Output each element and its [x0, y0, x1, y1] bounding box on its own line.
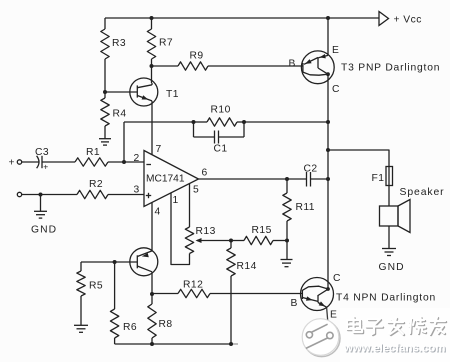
wire ground lead below R11: [286, 241, 288, 260]
svg-text:7: 7: [156, 144, 162, 155]
node R13-wiper/R14/R15 junction: [229, 239, 233, 243]
wire R14 bottom lead: [230, 276, 232, 344]
resistor R7: [147, 29, 173, 59]
wire rail to F1: [328, 150, 389, 167]
svg-text:R3: R3: [112, 38, 126, 49]
svg-text:6: 6: [202, 168, 208, 179]
resistor R6: [110, 309, 137, 338]
wire R14 top lead: [230, 241, 232, 249]
resistor R10: [194, 105, 245, 127]
wire R4 bottom lead: [104, 126, 106, 139]
node bottom/R8 junction: [150, 342, 154, 346]
node rail/C2 junction: [326, 177, 330, 181]
svg-text:C: C: [332, 84, 340, 95]
svg-text:R10: R10: [211, 105, 231, 116]
wire F1 to speaker: [388, 186, 390, 207]
resistor R14: [227, 248, 257, 276]
wire feedback horizontal: [124, 121, 194, 123]
label pin 1: [173, 195, 179, 206]
label pin 2: [134, 153, 140, 164]
wire R15 left lead: [231, 240, 244, 242]
wire R15 right lead: [273, 240, 287, 242]
wire R4 top lead: [104, 92, 106, 98]
wire op-amp pin5 lead: [189, 184, 191, 228]
resistor R12: [178, 280, 210, 298]
node T2-base/R5/R6 junction: [113, 260, 117, 264]
terminal input2 circle: [17, 192, 21, 196]
svg-text:R8: R8: [159, 319, 173, 330]
wire R6 top lead: [114, 262, 116, 309]
svg-text:C1: C1: [214, 144, 228, 155]
capacitor C1: [194, 122, 245, 155]
wire bottom: [115, 343, 231, 345]
node top T3 emitter junction: [326, 16, 330, 20]
capacitor C2: [304, 164, 318, 187]
wire feedback vertical: [123, 122, 125, 162]
svg-text:R13: R13: [196, 226, 216, 237]
node R11/R15/ground junction: [285, 239, 289, 243]
resistor R2: [77, 179, 108, 199]
wire R2 to op-amp pin3: [108, 194, 144, 196]
node feedback/pin2 junction: [122, 160, 126, 164]
label pin 4: [155, 207, 161, 218]
capacitor C3: [35, 147, 49, 172]
wire R5 to base node: [81, 261, 115, 263]
label pin 3: [134, 185, 140, 196]
wire R7 bottom lead: [151, 59, 153, 66]
op-amp pin2 minus symbol: [146, 164, 151, 166]
svg-text:4: 4: [155, 207, 161, 218]
wire GND1 lead: [40, 195, 42, 212]
watermark elecfans: [302, 308, 450, 362]
svg-text:B: B: [289, 59, 296, 70]
wire C2 to rail: [311, 178, 329, 180]
wire R3 top lead: [104, 18, 106, 29]
transistor T2: [130, 248, 158, 276]
svg-text:B: B: [291, 298, 298, 309]
op-amp U1 MC1741 triangle: [144, 151, 199, 207]
terminal +Vcc arrow: [379, 12, 422, 26]
resistor R4: [101, 98, 127, 126]
wire R11 top lead: [286, 179, 288, 193]
ground below R11: [281, 260, 293, 267]
resistor R1: [75, 147, 108, 166]
wire bottom stub: [231, 343, 238, 345]
wire R6 bottom lead: [114, 338, 116, 344]
wire input1 to C3: [22, 161, 40, 163]
label T3 name: [341, 63, 440, 74]
svg-text:C: C: [333, 273, 341, 284]
svg-text:E: E: [332, 45, 339, 56]
svg-text:R2: R2: [89, 179, 103, 190]
speaker: [380, 187, 445, 233]
wire T1 emitter to op-amp pin7: [151, 101, 153, 155]
wire R1 to op-amp pin2: [108, 161, 144, 163]
wire R10 to output rail: [244, 121, 328, 123]
wire R5 bottom lead: [80, 296, 82, 325]
ground R4: [99, 139, 111, 145]
wire R8 bottom lead: [151, 338, 153, 344]
resistor R13 potentiometer: [185, 226, 215, 254]
op-amp pin3 plus symbol: [146, 193, 151, 198]
label T3 B: [289, 59, 296, 70]
node input2/GND junction: [39, 193, 43, 197]
svg-text:T4 NPN Darlington: T4 NPN Darlington: [336, 293, 436, 304]
wire R7 top lead: [151, 18, 153, 29]
wire input2 to R2: [22, 194, 77, 196]
label T4 C: [333, 273, 341, 284]
label T3 E: [332, 45, 339, 56]
svg-text:T3 PNP Darlington: T3 PNP Darlington: [341, 63, 440, 74]
label T4 E: [330, 310, 337, 321]
terminal input1 circle: [17, 160, 21, 164]
wire R13 bottom to pin1: [171, 193, 190, 265]
resistor R3: [101, 29, 126, 59]
svg-text:1: 1: [173, 195, 179, 206]
wire T1 collector lead: [151, 83, 153, 85]
svg-text:R11: R11: [296, 202, 315, 213]
wire R12 left lead: [152, 293, 178, 295]
svg-text:F1: F1: [372, 173, 385, 184]
svg-text:MC1741: MC1741: [146, 173, 185, 184]
svg-text:2: 2: [134, 153, 140, 164]
svg-text:R6: R6: [123, 322, 137, 333]
svg-text:R15: R15: [252, 225, 272, 236]
wire R8 top lead: [151, 294, 153, 304]
wire T2 collector: [151, 272, 153, 294]
svg-text:R12: R12: [183, 280, 203, 291]
label T4 name: [336, 293, 436, 304]
node R7/R9/T1-collector junction: [150, 64, 154, 68]
ground GND1: [31, 211, 57, 235]
svg-text:R1: R1: [86, 147, 100, 158]
resistor R9: [178, 51, 208, 71]
wire R12 to T4 base: [210, 293, 302, 295]
wire T2 base: [115, 261, 138, 263]
svg-text:R5: R5: [89, 281, 103, 292]
wire R3 bottom lead: [104, 59, 106, 92]
svg-text:C3: C3: [35, 147, 49, 158]
wire T3 emitter from +Vcc: [327, 18, 329, 55]
terminal input1 plus: [9, 158, 15, 169]
label pin 7: [156, 144, 162, 155]
node bottom/R14 junction: [229, 342, 233, 346]
svg-text:R7: R7: [159, 38, 173, 49]
svg-text:+: +: [43, 162, 48, 172]
node pin6/R11/C2 junction: [285, 177, 289, 181]
wire R9 to T3 base: [208, 65, 303, 67]
resistor R5: [77, 271, 103, 296]
wire R13 wiper: [196, 238, 232, 243]
node T2-collector/R12/R8 junction: [150, 292, 154, 296]
svg-text:+: +: [9, 158, 15, 169]
ground below speaker: [379, 249, 405, 274]
svg-text:3: 3: [134, 185, 140, 196]
wire R11 bottom lead: [286, 221, 288, 241]
wire C3 to R1: [42, 161, 75, 163]
wire T1 base: [105, 91, 137, 93]
svg-text:T1: T1: [166, 89, 179, 100]
transistor T3 PNP darlington: [301, 51, 334, 84]
wire top +Vcc rail: [105, 17, 379, 19]
svg-text:R4: R4: [113, 109, 127, 120]
resistor R11: [283, 193, 315, 221]
wire op-amp pin4 to T2 emitter: [151, 203, 153, 251]
label T3 C: [332, 84, 340, 95]
node R3/R4/T1-base junction: [103, 90, 107, 94]
svg-text:C2: C2: [304, 164, 318, 175]
wire output rail: [327, 74, 329, 289]
transistor T4 NPN darlington: [301, 278, 334, 311]
resistor R15: [244, 225, 273, 245]
svg-text:www.elecfans.com: www.elecfans.com: [343, 342, 446, 354]
svg-text:GND: GND: [379, 262, 405, 273]
node R10/C1 right junction: [242, 120, 246, 124]
svg-text:R14: R14: [237, 261, 257, 272]
label T4 B: [291, 298, 298, 309]
ground below R5: [74, 325, 88, 332]
wire T1 collector: [151, 66, 153, 83]
wire T4 emitter: [327, 307, 328, 320]
svg-text:5: 5: [193, 185, 199, 196]
label pin 6: [202, 168, 208, 179]
wire speaker to ground: [388, 226, 390, 248]
wire R5 top lead: [80, 262, 82, 271]
label pin 5: [193, 185, 199, 196]
node rail/R10 junction: [326, 120, 330, 124]
node top R7 junction: [150, 16, 154, 20]
node R10/C1 left junction: [192, 120, 196, 124]
svg-text:Speaker: Speaker: [400, 187, 445, 198]
fuse F1: [372, 167, 393, 186]
svg-text:GND: GND: [31, 225, 57, 236]
svg-text:+ Vcc: + Vcc: [394, 15, 422, 26]
svg-text:R9: R9: [190, 51, 204, 62]
wire R9 left lead: [152, 65, 179, 67]
wire op-amp pin6 output: [199, 178, 307, 180]
node rail/F1 junction: [326, 148, 330, 152]
resistor R8: [148, 304, 173, 338]
svg-text:E: E: [330, 310, 337, 321]
transistor T1: [130, 78, 179, 106]
